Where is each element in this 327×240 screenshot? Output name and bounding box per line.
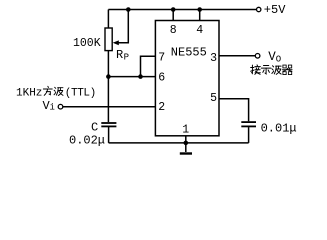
svg-text:1: 1 bbox=[182, 123, 189, 136]
svg-text:0.02μ: 0.02μ bbox=[69, 133, 105, 147]
svg-text:R: R bbox=[116, 48, 123, 62]
wire: pot bottom lead down to capacitor C bbox=[107, 51, 109, 122]
node: junction dot pot lead on pin6 wire bbox=[106, 74, 111, 79]
svg-text:O: O bbox=[276, 54, 281, 64]
svg-text:3: 3 bbox=[210, 52, 217, 65]
terminal: Vo open circle bbox=[255, 54, 260, 59]
svg-text:7: 7 bbox=[158, 52, 165, 65]
wire: pin 7 L-wire bbox=[141, 56, 156, 76]
CJK: bo2 bbox=[272, 66, 281, 75]
node: junction dot pin7 wire on pin6 wire bbox=[138, 74, 143, 79]
wire: wiper to top rail bbox=[117, 10, 129, 43]
wire: pin 5 to capacitor C2 bbox=[219, 99, 249, 121]
svg-text:+5V: +5V bbox=[264, 3, 286, 17]
wire: pin 4 stub bbox=[199, 10, 201, 21]
node: junction dot wiper/top rail bbox=[126, 7, 131, 12]
CJK: bo bbox=[54, 87, 63, 95]
capacitor C1 plates (0.02u) bbox=[101, 123, 116, 126]
svg-text:100K: 100K bbox=[73, 37, 101, 50]
CJK: qi bbox=[282, 65, 292, 74]
svg-text:C: C bbox=[91, 120, 98, 134]
capacitor C2 plates (0.01u) bbox=[241, 122, 256, 126]
terminal: +5V open circle bbox=[257, 7, 261, 11]
svg-text:6: 6 bbox=[158, 72, 165, 85]
wire: capacitor C2 bottom lead bbox=[248, 127, 250, 143]
svg-text:0.01μ: 0.01μ bbox=[261, 122, 297, 136]
wire: capacitor C bottom lead bbox=[108, 127, 110, 143]
node: junction dot pin 8 bbox=[171, 7, 176, 12]
svg-text:1KHz: 1KHz bbox=[16, 87, 42, 99]
wire: pin 6 node wire bbox=[108, 76, 155, 78]
wire: bottom ground rail bbox=[109, 142, 249, 144]
wire: Vi input to pin 2 bbox=[63, 106, 155, 108]
svg-text:2: 2 bbox=[158, 101, 165, 114]
svg-text:i: i bbox=[50, 103, 55, 113]
svg-text:4: 4 bbox=[196, 24, 203, 37]
node: junction dot ground bbox=[184, 141, 189, 146]
node: junction dot pin 4 bbox=[197, 7, 202, 12]
potentiometer RP body bbox=[105, 28, 112, 51]
wire: pin 1 stub bbox=[185, 136, 187, 143]
CJK: shi bbox=[261, 66, 271, 74]
op-amp U1 IC NE555 body bbox=[155, 21, 219, 136]
CJK: jie bbox=[251, 65, 261, 74]
wire: pin 8 stub bbox=[172, 10, 174, 21]
terminal: Vi open circle bbox=[58, 104, 63, 109]
wire: +5V top rail bbox=[108, 9, 256, 11]
wire: pot top lead bbox=[107, 10, 109, 29]
svg-text:8: 8 bbox=[170, 24, 177, 37]
CJK: fang bbox=[43, 86, 52, 95]
wire: pin 3 output bbox=[219, 55, 255, 57]
svg-text:(TTL): (TTL) bbox=[65, 87, 96, 99]
svg-text:P: P bbox=[124, 53, 129, 63]
svg-text:5: 5 bbox=[210, 92, 217, 105]
svg-text:NE555: NE555 bbox=[171, 46, 207, 60]
ground symbol bbox=[180, 143, 192, 154]
potentiometer RP wiper arrow bbox=[113, 40, 119, 45]
